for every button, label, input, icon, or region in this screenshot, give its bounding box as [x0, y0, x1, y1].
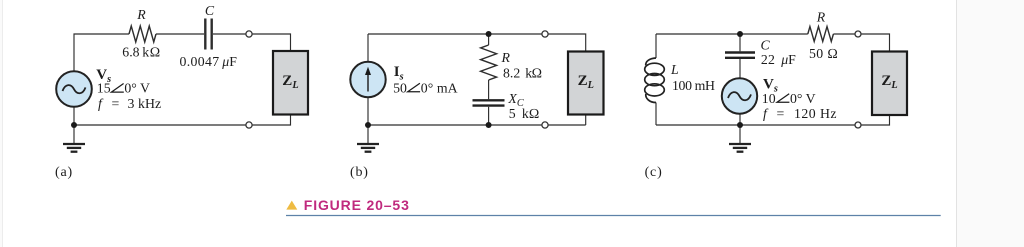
svg-text:C: C — [205, 3, 215, 18]
svg-text:L: L — [670, 62, 679, 77]
svg-text:R: R — [136, 7, 146, 22]
svg-text:0° V: 0° V — [124, 81, 150, 96]
svg-text:0.0047: 0.0047 — [180, 54, 220, 69]
svg-text:R: R — [816, 9, 826, 24]
svg-text:FIGURE 20–53: FIGURE 20–53 — [304, 197, 410, 213]
svg-text:0° V: 0° V — [790, 91, 816, 106]
svg-text:3 kHz: 3 kHz — [128, 96, 162, 111]
svg-text:C: C — [761, 37, 771, 52]
svg-text:15: 15 — [97, 81, 111, 96]
svg-text:0° mA: 0° mA — [421, 80, 458, 95]
svg-text:50: 50 — [393, 80, 407, 95]
svg-text:(c): (c) — [645, 165, 663, 180]
svg-text:100 mH: 100 mH — [672, 78, 715, 93]
svg-text:R: R — [501, 50, 511, 65]
svg-text:kΩ: kΩ — [525, 66, 542, 81]
svg-text:50 Ω: 50 Ω — [809, 46, 838, 61]
svg-text:(a): (a) — [55, 165, 73, 180]
svg-text:22: 22 — [761, 52, 775, 67]
svg-text:5: 5 — [509, 106, 516, 121]
svg-text:6.8: 6.8 — [122, 44, 139, 59]
svg-text:(b): (b) — [350, 165, 369, 180]
svg-text:120 Hz: 120 Hz — [794, 106, 837, 121]
svg-text:10: 10 — [762, 91, 776, 106]
svg-text:8.2: 8.2 — [503, 66, 520, 81]
svg-text:=: = — [777, 106, 785, 121]
svg-text:kΩ: kΩ — [522, 106, 539, 121]
svg-text:μF: μF — [221, 54, 237, 69]
svg-text:kΩ: kΩ — [142, 44, 160, 59]
svg-text:=: = — [112, 96, 120, 111]
svg-text:μF: μF — [780, 52, 796, 67]
